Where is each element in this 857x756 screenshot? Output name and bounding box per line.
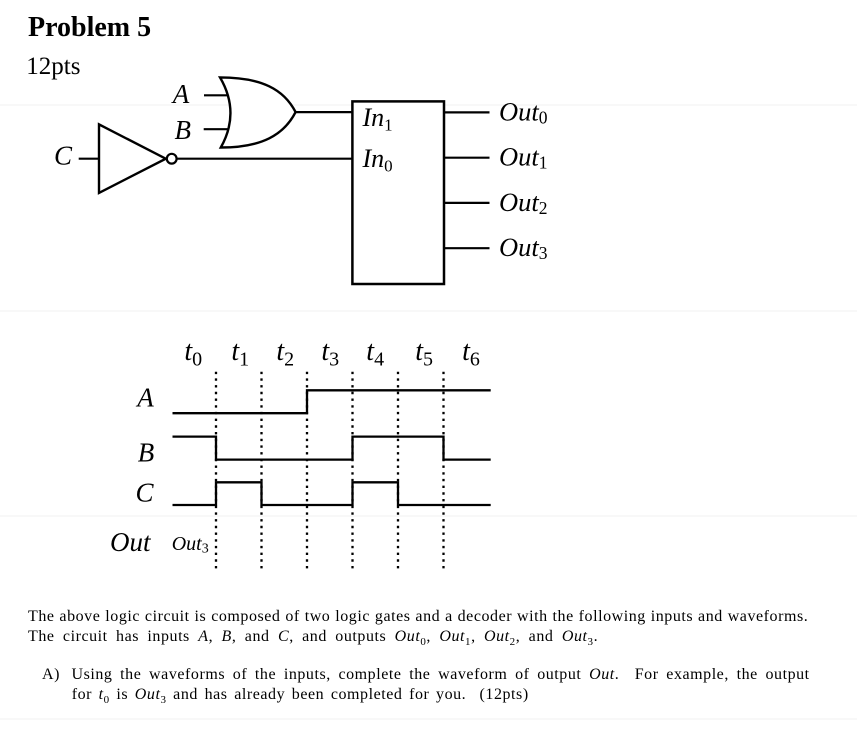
label 12pts	[26, 53, 80, 81]
grid dotted line t5	[442, 372, 444, 573]
svg-text:A: A	[135, 383, 154, 413]
separator line 2	[0, 310, 857, 312]
separator line 3	[0, 515, 857, 517]
svg-text:Out1: Out1	[499, 142, 548, 173]
svg-text:B: B	[138, 437, 155, 467]
grid dotted line t2	[306, 372, 308, 573]
wire Out3 stub	[444, 247, 490, 249]
svg-text:t0: t0	[184, 336, 202, 371]
waveform C	[173, 482, 491, 505]
wire Out2 stub	[444, 202, 490, 204]
inverter U1 bubble	[167, 154, 177, 164]
wire B input stub	[204, 128, 229, 130]
grid dotted line t3	[351, 372, 353, 573]
svg-text:C: C	[54, 141, 73, 171]
svg-text:t1: t1	[231, 336, 249, 371]
svg-text:t5: t5	[415, 336, 433, 371]
wire A input stub	[204, 94, 230, 96]
wire C input	[79, 158, 99, 160]
svg-text:A: A	[171, 79, 190, 109]
svg-text:t2: t2	[276, 336, 294, 371]
grid dotted line t0	[215, 372, 217, 573]
svg-text:Out0: Out0	[499, 96, 548, 127]
inverter U1 triangle	[99, 124, 166, 192]
wire Out1 stub	[444, 157, 490, 159]
waveform A	[173, 390, 491, 413]
wire inverter output to decoder In0	[177, 158, 353, 160]
waveform B	[173, 437, 491, 460]
svg-text:t4: t4	[366, 336, 384, 371]
item line A)	[42, 666, 810, 684]
paragraph line 2	[28, 628, 598, 648]
grid dotted line t1	[260, 372, 262, 573]
wire or-gate output to decoder In1	[296, 111, 353, 113]
svg-text:C: C	[136, 478, 155, 508]
title Problem 5	[28, 12, 151, 44]
or-gate U2	[220, 77, 296, 147]
separator line 4	[0, 718, 857, 720]
svg-text:B: B	[175, 115, 192, 145]
decoder U3 box	[352, 101, 444, 284]
svg-text:t6: t6	[462, 336, 480, 371]
separator line 1	[0, 104, 857, 106]
grid dotted line t4	[397, 372, 399, 573]
svg-text:Out3: Out3	[499, 232, 548, 263]
svg-text:Out2: Out2	[499, 187, 548, 218]
item line 2	[72, 686, 529, 706]
wire Out0 stub	[444, 111, 490, 113]
svg-text:Out: Out	[110, 527, 152, 557]
svg-text:t3: t3	[321, 336, 339, 371]
paragraph line 1	[28, 608, 808, 626]
svg-text:Out3: Out3	[172, 533, 209, 557]
